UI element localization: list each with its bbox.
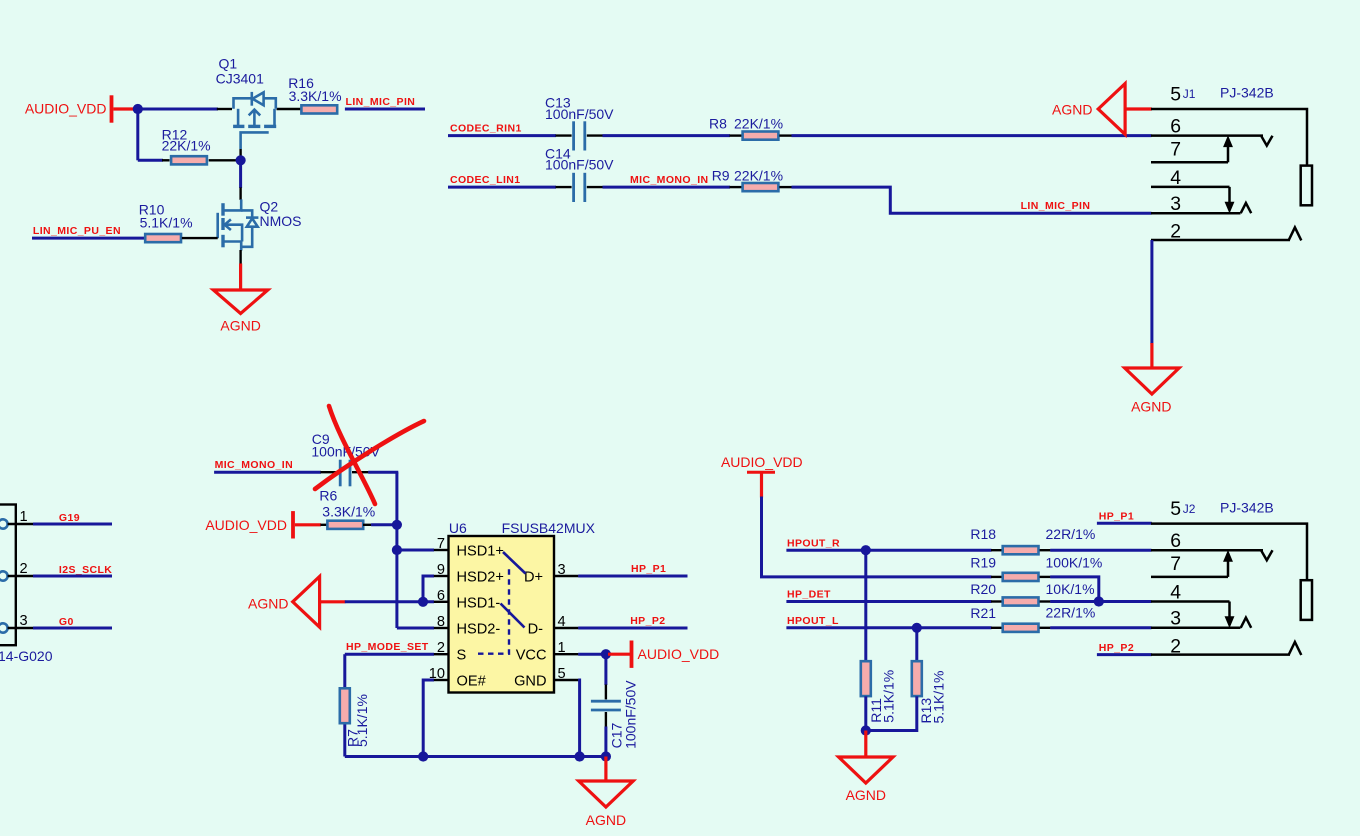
resistor R21 xyxy=(1003,624,1039,632)
pin U6.3 xyxy=(554,575,579,577)
svg-text:AUDIO_VDD: AUDIO_VDD xyxy=(721,454,803,470)
capacitor C13 xyxy=(574,121,585,150)
svg-text:OE#: OE# xyxy=(457,674,487,690)
connector J2 pin 2 ring contact xyxy=(1289,642,1302,655)
svg-text:LIN_MIC_PIN: LIN_MIC_PIN xyxy=(1021,200,1091,212)
resistor R20 xyxy=(1003,597,1039,605)
power port AUDIO_VDD (top left) xyxy=(25,95,112,122)
svg-text:AUDIO_VDD: AUDIO_VDD xyxy=(205,517,287,533)
svg-text:HSD1-: HSD1- xyxy=(457,595,501,611)
svg-text:R20: R20 xyxy=(970,581,996,597)
pin R6 right xyxy=(363,524,371,526)
resistor R6 xyxy=(327,521,363,529)
connector J2 pin 6 line xyxy=(1151,549,1263,552)
pin R18 right xyxy=(1040,549,1051,551)
wire U6 pin9 corner xyxy=(423,576,434,602)
connector J2 sleeve contact xyxy=(1301,580,1312,620)
svg-text:CODEC_RIN1: CODEC_RIN1 xyxy=(450,122,522,134)
svg-text:22K/1%: 22K/1% xyxy=(734,168,783,184)
pin U6.7 xyxy=(434,549,449,551)
resistor R18 xyxy=(1003,546,1039,554)
svg-text:J2: J2 xyxy=(1183,502,1196,516)
U6 switch control dashed xyxy=(478,568,509,654)
svg-text:7: 7 xyxy=(1170,553,1181,575)
pin Q2 drain xyxy=(239,187,241,199)
svg-text:AGND: AGND xyxy=(248,595,288,611)
svg-text:10: 10 xyxy=(429,666,445,682)
wire AUDIO_VDD down to R19 row xyxy=(762,497,992,577)
svg-text:7: 7 xyxy=(437,536,445,552)
wire AGND to J1 pin5 xyxy=(1125,107,1152,110)
power port AUDIO_VDD (at U6 VCC) xyxy=(608,641,719,668)
svg-text:VCC: VCC xyxy=(516,648,547,664)
svg-text:3: 3 xyxy=(1170,193,1181,215)
connector J1 sleeve contact xyxy=(1301,166,1312,206)
svg-text:AGND: AGND xyxy=(220,318,260,334)
op-amp U6 body (FSUSB42MUX) xyxy=(449,536,555,693)
svg-text:8: 8 xyxy=(437,614,445,630)
ground AGND (bottom right) xyxy=(839,757,893,783)
svg-text:HP_P2: HP_P2 xyxy=(1099,642,1134,654)
svg-text:5: 5 xyxy=(1170,84,1181,106)
svg-text:5: 5 xyxy=(1170,498,1181,520)
wire R16 to LIN_MIC_PIN xyxy=(345,108,425,111)
pin R12 right xyxy=(209,159,236,161)
wire HPOUT_L down to R13 xyxy=(915,628,918,661)
wire VCC down to C17 xyxy=(604,654,607,685)
wire C13 to R8 xyxy=(603,134,731,137)
svg-text:AGND: AGND xyxy=(1052,101,1092,117)
U6 switch path 2 xyxy=(501,604,525,628)
transistor Q2 (NMOS)', symbol xyxy=(218,199,259,250)
pin C17 top xyxy=(605,685,607,700)
wire junction to Q2 drain xyxy=(239,160,242,188)
wire R11 to junction xyxy=(864,696,867,730)
wire AGND stub (red) xyxy=(320,600,346,603)
pin U6.10 xyxy=(434,679,449,681)
junction node R19/R20 xyxy=(1094,596,1104,606)
connector pin 1 lead xyxy=(8,523,33,525)
ground AGND (at J1 pin5) xyxy=(1098,84,1125,135)
svg-text:14-G020: 14-G020 xyxy=(0,648,53,664)
pin R20 right xyxy=(1040,600,1051,602)
connector J2 pin 3 line xyxy=(1151,627,1241,630)
svg-text:1: 1 xyxy=(20,509,28,525)
connector J1 pin 3 ring contact xyxy=(1241,203,1252,213)
wire U6 pin4 HP_P2 xyxy=(578,627,687,630)
wire HP_DET to R20 xyxy=(786,600,991,603)
pin C13 left xyxy=(556,134,572,136)
svg-text:HP_P2: HP_P2 xyxy=(630,615,665,627)
pin R8 left xyxy=(730,134,742,136)
connector J2 pin 7 line xyxy=(1151,576,1228,579)
connector J2 pin 4 switch arrow xyxy=(1225,602,1233,627)
svg-text:PJ-342B: PJ-342B xyxy=(1220,85,1274,101)
svg-text:5.1K/1%: 5.1K/1% xyxy=(931,671,947,724)
svg-text:5.1K/1%: 5.1K/1% xyxy=(140,215,193,231)
wire HP_MODE_SET down to R7 xyxy=(343,654,346,687)
wire HPOUT_R down to R11 xyxy=(864,550,867,661)
wire R13 bottom corner xyxy=(866,696,917,730)
pin R19 left xyxy=(991,576,1002,578)
wire U6 pin3 HP_P1 xyxy=(578,575,687,578)
connector J2 pin 4 line xyxy=(1151,600,1230,603)
junction node R6/bus xyxy=(392,520,402,530)
svg-text:2: 2 xyxy=(20,561,28,577)
svg-text:AUDIO_VDD: AUDIO_VDD xyxy=(638,646,720,662)
svg-text:G0: G0 xyxy=(59,616,74,628)
svg-text:3.3K/1%: 3.3K/1% xyxy=(322,504,375,520)
svg-text:PJ-342B: PJ-342B xyxy=(1220,499,1274,515)
resistor R19 xyxy=(1003,573,1039,581)
svg-text:HP_P1: HP_P1 xyxy=(631,563,666,575)
svg-text:6: 6 xyxy=(1170,115,1181,137)
svg-text:CJ3401: CJ3401 xyxy=(216,71,264,87)
pin R21 left xyxy=(991,627,1002,629)
U6 switch path 1 xyxy=(503,552,526,574)
wire rail to AGND (red) xyxy=(604,757,607,782)
connector J1 pin 2 line xyxy=(1151,239,1290,242)
junction node HPOUT_L/R13 xyxy=(912,623,922,633)
resistor R16 xyxy=(301,105,337,113)
pin U6.5 xyxy=(554,679,579,681)
svg-text:6: 6 xyxy=(437,588,445,604)
power port AUDIO_VDD (bottom right) xyxy=(721,454,803,472)
wire J1 pin2 to AGND (red) xyxy=(1150,343,1153,369)
resistor R11 xyxy=(861,661,871,696)
wire AUDIO_VDD to junction xyxy=(113,107,137,110)
wire AUDIO_VDD stem (red) xyxy=(760,472,763,497)
svg-text:R9: R9 xyxy=(712,168,730,184)
connector J2 pin 3 ring contact xyxy=(1241,618,1252,628)
connector pin 1 circle xyxy=(0,519,8,528)
ground AGND (below U6) xyxy=(579,781,633,807)
svg-text:GND: GND xyxy=(514,674,546,690)
wire C17 to rail xyxy=(604,727,607,757)
connector J1 pin 7 switch arrow xyxy=(1224,137,1232,163)
connector J1 pin 4 switch arrow xyxy=(1225,187,1233,212)
wire CODEC_RIN1 to C13 xyxy=(448,134,556,137)
wire AGND to U6 pin6 xyxy=(345,600,434,603)
svg-text:LIN_MIC_PIN: LIN_MIC_PIN xyxy=(346,96,416,108)
resistor R12 xyxy=(171,156,207,164)
resistor R7 xyxy=(340,688,350,723)
connector J1 pin 7 line xyxy=(1151,161,1228,164)
resistor R8 xyxy=(743,132,779,140)
wire net G0 xyxy=(33,627,112,630)
svg-text:HPOUT_L: HPOUT_L xyxy=(787,615,839,627)
svg-text:100K/1%: 100K/1% xyxy=(1046,555,1103,571)
connector pin 3 circle xyxy=(0,623,8,632)
junction node R11/R13/AGND xyxy=(861,725,871,735)
wire HPOUT_L to R21 xyxy=(786,626,991,629)
svg-text:G19: G19 xyxy=(59,512,80,524)
svg-text:R8: R8 xyxy=(709,116,727,132)
svg-text:22K/1%: 22K/1% xyxy=(162,138,211,154)
svg-text:Q1: Q1 xyxy=(219,56,238,72)
svg-text:3: 3 xyxy=(20,613,28,629)
svg-text:HP_P1: HP_P1 xyxy=(1099,511,1134,523)
wire HP_P1 to J2 pin5 xyxy=(1097,522,1152,525)
pin R21 right xyxy=(1040,627,1051,629)
svg-text:100nF/50V: 100nF/50V xyxy=(545,157,614,173)
svg-text:6: 6 xyxy=(1170,530,1181,552)
wire junction down xyxy=(136,109,139,160)
wire bus to U6 pin8 xyxy=(397,627,434,630)
wire C14 to R9 xyxy=(603,186,731,189)
pin C9 left xyxy=(320,471,338,473)
svg-text:LIN_MIC_PU_EN: LIN_MIC_PU_EN xyxy=(33,225,121,237)
svg-text:S: S xyxy=(457,648,467,664)
power port AUDIO_VDD (at R6) xyxy=(205,511,293,538)
pin C14 right xyxy=(587,186,603,188)
resistor R13 xyxy=(912,661,922,696)
connector pin 3 lead xyxy=(8,627,33,629)
connector J1 pin 3 line xyxy=(1151,212,1241,215)
wire MIC_MONO_IN to C9 xyxy=(214,471,321,474)
no-fit cross stroke 1 xyxy=(329,406,375,504)
wire J1 pin2 down xyxy=(1150,240,1153,344)
capacitor C17 xyxy=(591,701,621,710)
resistor R10 xyxy=(145,234,181,242)
svg-text:HSD2-: HSD2- xyxy=(457,621,501,637)
svg-text:AGND: AGND xyxy=(1131,399,1171,415)
junction node pin9/AGND xyxy=(418,597,428,607)
pin U6.4 xyxy=(554,627,579,629)
pin R20 left xyxy=(991,600,1002,602)
svg-text:3: 3 xyxy=(1170,608,1181,630)
wire R8 to J1 pin6 xyxy=(792,134,1152,137)
pin Q1 gate xyxy=(239,149,241,156)
wire HPOUT_R to R18 xyxy=(786,549,991,552)
wire R9 east then down xyxy=(792,187,1152,213)
wire HP_P2 to J2 pin2 xyxy=(1097,653,1152,656)
wire CODEC_LIN1 to C14 xyxy=(448,186,556,189)
pin R12 left xyxy=(162,159,170,161)
wire bus to U6 pin7 xyxy=(397,549,434,552)
svg-text:22R/1%: 22R/1% xyxy=(1046,526,1096,542)
pin U6.9 xyxy=(434,575,449,577)
wire LIN_MIC_PU_EN to R10 xyxy=(32,237,144,240)
pin R18 left xyxy=(991,549,1002,551)
junction node pin7/bus xyxy=(392,545,402,555)
wire junction to J2 pin4 xyxy=(1099,600,1152,603)
svg-text:R6: R6 xyxy=(319,488,337,504)
svg-text:7: 7 xyxy=(1170,139,1181,161)
pin C14 left xyxy=(556,186,572,188)
svg-text:10K/1%: 10K/1% xyxy=(1046,581,1095,597)
junction node rail/C17 xyxy=(601,751,611,761)
svg-text:HP_MODE_SET: HP_MODE_SET xyxy=(346,641,429,653)
svg-text:R19: R19 xyxy=(970,555,996,571)
svg-text:AGND: AGND xyxy=(586,812,626,828)
svg-text:AGND: AGND xyxy=(846,787,886,803)
wire HP_MODE_SET to U6 pin2 xyxy=(345,653,434,656)
connector J1 pin 5 line xyxy=(1151,109,1307,166)
wire C9 to corner xyxy=(368,471,398,474)
connector J2 pin 7 switch arrow xyxy=(1224,551,1232,577)
pin Q1 source xyxy=(217,108,232,110)
ground AGND (below J1) xyxy=(1125,368,1179,394)
wire AUDIO_VDD to R6 xyxy=(295,523,321,526)
connector J2 pin 5 line xyxy=(1151,524,1307,581)
pin R19 right xyxy=(1040,576,1051,578)
wire junction to AGND (red) xyxy=(864,731,867,758)
junction node AUDIO_VDD xyxy=(133,104,143,114)
wire R18 to J2 pin6 xyxy=(1050,549,1151,552)
pin R6 left xyxy=(320,524,327,526)
svg-text:I2S_SCLK: I2S_SCLK xyxy=(59,564,112,576)
wire U6 pin10 corner xyxy=(423,680,434,757)
connector J1 pin 2 ring contact xyxy=(1289,227,1302,240)
svg-text:100nF/50V: 100nF/50V xyxy=(623,680,639,749)
svg-text:D+: D+ xyxy=(524,569,543,585)
wire vertical MIC_MONO_IN bus xyxy=(395,472,398,628)
pin R9 right xyxy=(779,186,791,188)
resistor R9 xyxy=(743,183,779,191)
pin R8 right xyxy=(779,134,791,136)
pin U6.1 xyxy=(554,653,579,655)
ground AGND (under Q2) xyxy=(213,290,267,314)
svg-text:2: 2 xyxy=(437,640,445,656)
capacitor C14 xyxy=(574,173,585,202)
svg-text:AUDIO_VDD: AUDIO_VDD xyxy=(25,101,107,117)
svg-text:FSUSB42MUX: FSUSB42MUX xyxy=(502,520,596,536)
capacitor C9 xyxy=(340,460,350,487)
pin C9 right xyxy=(352,471,368,473)
svg-text:5.1K/1%: 5.1K/1% xyxy=(354,694,370,747)
svg-text:NMOS: NMOS xyxy=(260,213,302,229)
transistor Q1 (PMOS CJ3401)', symbol xyxy=(233,92,276,149)
wire R7 to ground rail xyxy=(343,725,346,757)
pin U6.6 xyxy=(434,601,449,603)
junction node rail/GND xyxy=(575,751,585,761)
svg-text:9: 9 xyxy=(437,562,445,578)
svg-text:MIC_MONO_IN: MIC_MONO_IN xyxy=(630,174,709,186)
junction node HPOUT_R/R11 xyxy=(861,545,871,555)
wire Q2 source to AGND xyxy=(239,264,242,291)
wire to R12 xyxy=(138,159,163,162)
connector J2 pin 6 tip contact xyxy=(1261,550,1272,560)
wire net G19 xyxy=(33,523,112,526)
wire R6 to vertical bus xyxy=(371,523,397,526)
svg-text:100nF/50V: 100nF/50V xyxy=(545,106,614,122)
no-fit cross stroke 2 xyxy=(315,421,424,489)
svg-text:R18: R18 xyxy=(970,526,996,542)
wire U6 pin5 GND corner xyxy=(578,680,579,757)
svg-text:5.1K/1%: 5.1K/1% xyxy=(881,670,897,723)
wire junction to Q1 source xyxy=(138,108,218,111)
svg-text:D-: D- xyxy=(528,621,544,637)
junction node rail/pin10 xyxy=(418,751,428,761)
svg-text:U6: U6 xyxy=(449,520,467,536)
pin Q2 source xyxy=(239,250,241,265)
junction node VCC/C17 xyxy=(601,649,611,659)
pin C17 bottom xyxy=(605,712,607,727)
pin U6.2 xyxy=(434,653,449,655)
svg-text:MIC_MONO_IN: MIC_MONO_IN xyxy=(215,459,294,471)
pin U6.8 xyxy=(434,627,449,629)
svg-text:3.3K/1%: 3.3K/1% xyxy=(289,88,342,104)
wire R21 to J2 pin3 xyxy=(1050,626,1151,629)
connector J1 pin 6 line xyxy=(1151,134,1263,137)
svg-text:CODEC_LIN1: CODEC_LIN1 xyxy=(450,174,521,186)
wire net I2S_SCLK xyxy=(33,575,112,578)
pin R10 right / Q2 gate xyxy=(182,237,218,239)
connector pin 2 circle xyxy=(0,571,8,580)
wire ground rail xyxy=(345,755,606,758)
connector J1 pin 6 tip contact xyxy=(1261,136,1272,146)
svg-text:HSD1+: HSD1+ xyxy=(457,543,504,559)
svg-text:R21: R21 xyxy=(970,605,996,621)
pin Q1 drain xyxy=(277,108,302,110)
connector P? body (bottom left) xyxy=(0,505,16,646)
svg-text:HSD2+: HSD2+ xyxy=(457,569,504,585)
wire R19 corner down xyxy=(1050,577,1099,602)
pin C13 right xyxy=(587,134,603,136)
connector J1 pin 4 line xyxy=(1151,186,1230,189)
pin R9 left xyxy=(730,186,742,188)
wire U6 pin1 VCC xyxy=(578,653,606,656)
wire R20 to junction xyxy=(1050,600,1099,603)
junction node gate/R12/Q2 xyxy=(236,155,246,165)
connector J2 pin 2 line xyxy=(1151,653,1290,656)
connector pin 2 lead xyxy=(8,575,33,577)
ground AGND (left of U6) xyxy=(293,576,320,627)
svg-text:J1: J1 xyxy=(1183,87,1196,101)
svg-text:22K/1%: 22K/1% xyxy=(734,116,783,132)
svg-text:22R/1%: 22R/1% xyxy=(1046,605,1096,621)
svg-text:HPOUT_R: HPOUT_R xyxy=(787,537,840,549)
svg-text:HP_DET: HP_DET xyxy=(787,589,831,601)
